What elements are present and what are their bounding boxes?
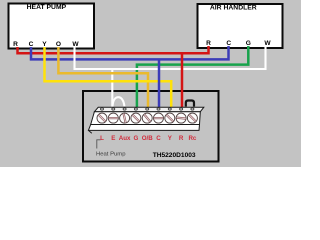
wire red R (heat pump R to air handler R) — [18, 46, 209, 53]
terminal strip top face — [94, 107, 203, 111]
black jumper R to Rc — [186, 101, 194, 107]
screw R — [176, 113, 186, 123]
Heat Pump caption — [96, 152, 126, 158]
white jumper E to Aux — [113, 97, 125, 106]
thermostat terminal label R — [179, 135, 184, 142]
heat pump terminal C — [29, 41, 34, 48]
svg-text:G: G — [133, 135, 138, 142]
air handler terminal C — [226, 40, 231, 47]
svg-text:AIR HANDLER: AIR HANDLER — [210, 5, 257, 12]
svg-text:TH5220D1003: TH5220D1003 — [153, 152, 196, 159]
svg-text:Aux: Aux — [119, 135, 131, 142]
svg-text:Rc: Rc — [188, 135, 196, 142]
thermostat terminal label G — [133, 135, 138, 142]
callout bracket for Heat Pump label — [97, 140, 101, 149]
wire green G (air handler G to thermostat G) — [137, 46, 248, 108]
thermostat terminal label Y — [168, 135, 173, 142]
thermostat terminal label Aux — [119, 135, 131, 142]
svg-text:W: W — [72, 41, 79, 48]
terminal strip bottom flange — [88, 125, 199, 131]
screw O/B — [142, 113, 152, 123]
screw C — [154, 113, 164, 123]
svg-text:E: E — [111, 135, 115, 142]
svg-text:O/B: O/B — [142, 135, 154, 142]
svg-text:Heat Pump: Heat Pump — [96, 152, 126, 158]
svg-text:L: L — [100, 135, 104, 142]
heat pump terminal W — [72, 41, 79, 48]
wire yellow Y (heat pump Y to thermostat Y) — [45, 47, 172, 108]
heat pump title — [27, 4, 67, 11]
heat pump terminal O — [56, 41, 61, 48]
air handler title — [210, 5, 257, 12]
wire red drop to thermostat R — [181, 53, 184, 108]
wire white W (heat pump W to air handler W) — [75, 46, 266, 69]
thermostat terminal label Rc — [188, 135, 196, 142]
thermostat terminal label L — [100, 135, 104, 142]
heat pump terminal Y — [42, 41, 47, 48]
heat pump unit box — [9, 4, 95, 49]
screw G — [131, 113, 141, 123]
terminal strip foot edge — [88, 130, 91, 133]
screw L — [97, 113, 107, 123]
model number TH5220D1003 — [153, 152, 196, 159]
heat pump terminal R — [13, 41, 18, 48]
thermostat terminal label E — [111, 135, 115, 142]
air handler terminal R — [206, 40, 211, 47]
screw E — [108, 113, 118, 123]
air handler terminal W — [264, 40, 271, 47]
wire blue drop to thermostat C — [158, 59, 161, 108]
screw Y — [165, 113, 175, 123]
wire blue C (heat pump C to air handler C) — [31, 46, 229, 59]
air handler unit box — [198, 4, 283, 48]
air handler terminal G — [246, 40, 251, 47]
thermostat box TH5220D1003 — [83, 91, 219, 162]
thermostat terminal label C — [156, 135, 161, 142]
screw Rc — [187, 113, 197, 123]
svg-text:C: C — [156, 135, 161, 142]
top wire holes — [101, 108, 194, 110]
screw Aux — [120, 113, 130, 123]
terminal strip front face — [91, 112, 201, 125]
wire white drop to thermostat E — [111, 69, 113, 107]
wire orange O (heat pump O to thermostat O/B) — [58, 47, 148, 108]
svg-text:HEAT PUMP: HEAT PUMP — [27, 4, 67, 11]
svg-text:R: R — [179, 135, 184, 142]
thermostat terminal label O/B — [142, 135, 154, 142]
